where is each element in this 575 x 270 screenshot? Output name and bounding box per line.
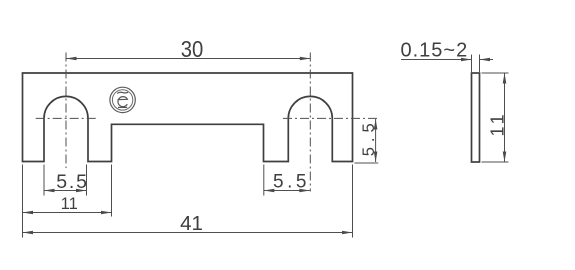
right slot vertical centerline: [309, 53, 311, 192]
dimension 5.5 right extension line: [263, 165, 265, 196]
dimension 11 side extension lines: [482, 73, 509, 162]
right slot horizontal centerline: [283, 117, 378, 119]
front view plate outline: [23, 73, 353, 162]
svg-text:11: 11: [61, 195, 78, 213]
logo stamp outer circle: [110, 87, 135, 112]
dimension 5.5 right line: [264, 190, 310, 192]
dimension 0.15~2 leader line: [401, 59, 472, 61]
svg-text:30: 30: [181, 36, 204, 63]
dimension 5.5 left line: [44, 190, 87, 192]
dimension 0.15~2 extension lines: [472, 55, 480, 73]
dimension 41 line: [23, 232, 353, 234]
dimension 5.5 left arrows: [44, 189, 87, 193]
left slot vertical centerline: [65, 53, 67, 169]
dimension 5.5 left extension lines: [44, 165, 87, 196]
side view plate outline: [472, 73, 480, 162]
dimension 30 line: [66, 58, 310, 60]
dimension 0.15~2 arrows: [461, 58, 490, 62]
svg-text:5.5: 5.5: [360, 118, 378, 156]
dimension 30 arrows: [66, 57, 310, 61]
svg-text:5.5: 5.5: [273, 172, 310, 193]
dimension 11 extension line: [111, 165, 113, 217]
svg-text:5.5: 5.5: [56, 171, 89, 193]
dimension 5.5 vertical arrows: [374, 119, 378, 162]
dimension 41 extension lines: [23, 165, 353, 238]
dimension 0.15~2 right tail: [480, 59, 494, 61]
dimension 11 side line: [504, 73, 506, 162]
logo stamp e-glyph: [117, 92, 128, 107]
dimension 41 arrows: [23, 231, 353, 235]
dimension 11 line: [23, 212, 112, 214]
dimension 11 side arrows: [503, 73, 507, 162]
svg-text:41: 41: [180, 212, 203, 235]
dimension 5.5 vertical line: [375, 119, 377, 162]
dimension 5.5 vertical bottom extension line: [355, 162, 379, 164]
logo stamp inner circle: [112, 90, 132, 110]
svg-text:0.15~2: 0.15~2: [401, 40, 469, 62]
svg-text:11: 11: [487, 111, 507, 137]
left slot horizontal centerline: [36, 117, 99, 119]
dimension 11 arrows: [23, 211, 112, 215]
dimension 5.5 right arrows: [264, 189, 310, 193]
